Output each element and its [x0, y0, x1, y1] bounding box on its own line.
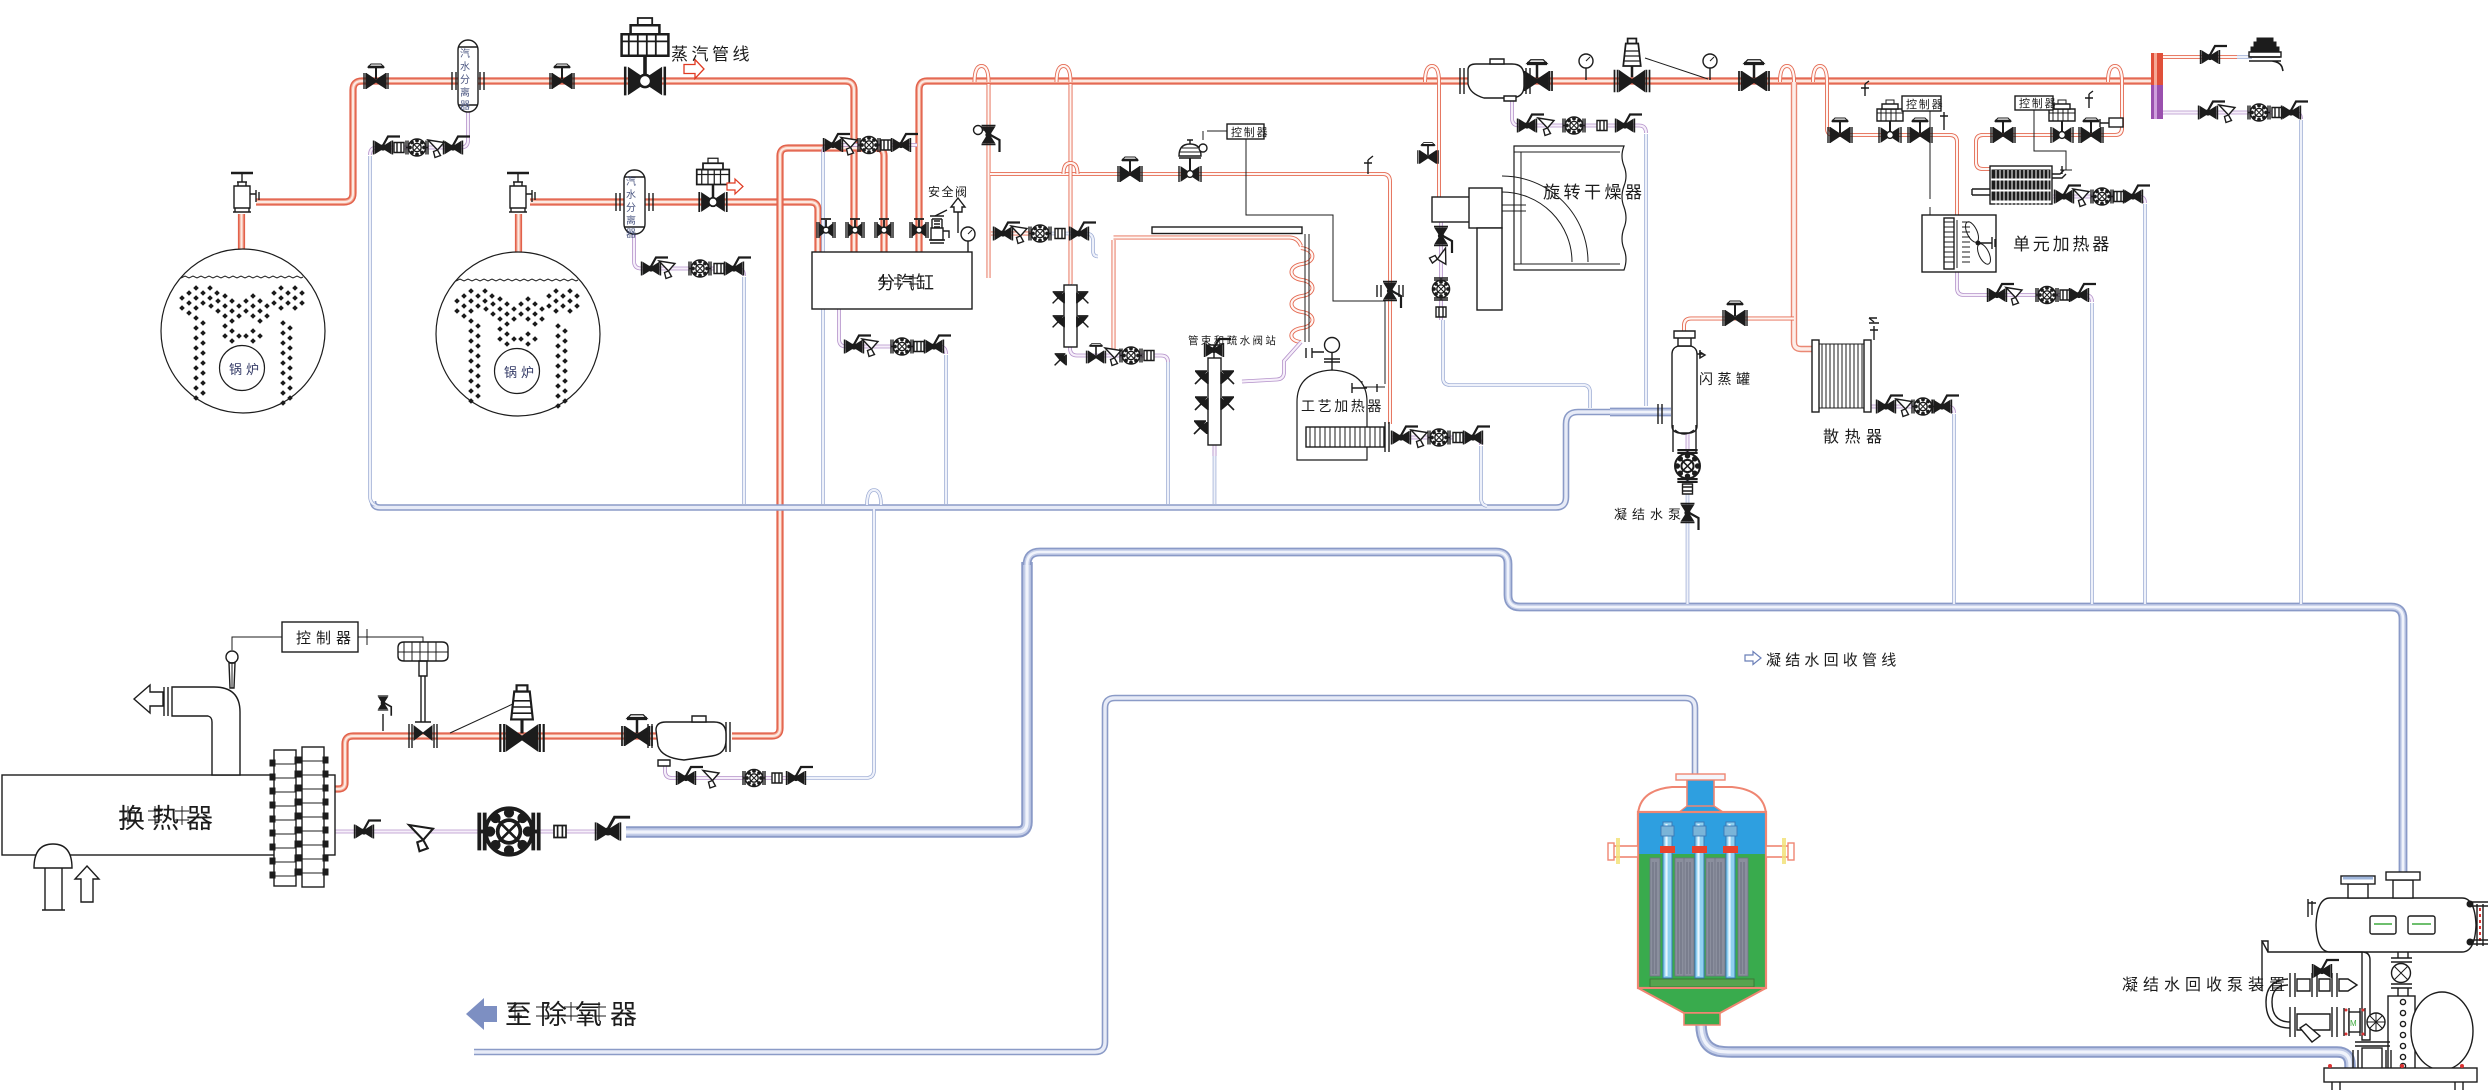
- baseplate: [2324, 1064, 2477, 1090]
- svg-text:单元加热器: 单元加热器: [2013, 235, 2112, 254]
- pump suction cross fitting: [2353, 1042, 2391, 1070]
- receiver vessel: [2316, 898, 2476, 952]
- valve flanged ball on bundle feed x1390: [1377, 282, 1403, 309]
- trap set riser drip y145: strainer: [841, 138, 857, 156]
- wire radiator drain trap set y406: [1871, 407, 1954, 414]
- trap set process heater y437: ball2: [1464, 427, 1491, 445]
- trap set manifold drain y346: ball: [845, 336, 872, 354]
- rotary dryer body: [1432, 146, 1626, 310]
- trap set radiator y406: strainer: [1896, 399, 1912, 417]
- svg-text:控制器: 控制器: [1231, 125, 1269, 139]
- svg-text:换热器: 换热器: [118, 804, 220, 834]
- station1: control valve CV5: [1877, 100, 1903, 143]
- control valve CV2 on boiler2 line: [697, 158, 730, 212]
- wire trap station TM bottom stub: [1213, 445, 1217, 456]
- wire boiler1 outlet to header A and down to manifold riser R2: [256, 81, 854, 252]
- valve riser R4: [910, 219, 928, 238]
- wire deaerator line y1052 rising x1105 east y698 to tank top: [474, 698, 1695, 1052]
- wire trap drop to y507: riser drip set: [821, 152, 825, 504]
- wire trap drop to y507: separator2: [742, 277, 746, 504]
- wire controller K1 signal to unit heater sensor: [1926, 110, 1934, 232]
- tank left nozzle: [1608, 838, 1638, 864]
- air vent device top right: [2249, 38, 2283, 71]
- HX outlet: check: [554, 826, 566, 838]
- wire thin steam line y174 to process heater bundle: [990, 174, 1390, 424]
- dryer inlet arcs: [1502, 176, 1588, 262]
- valve ball on drop x988: [974, 126, 1000, 153]
- separator S2 (boiler2 steam separator): [616, 170, 653, 234]
- flash condensate pump float trap: [1675, 450, 1700, 482]
- HX line: flow meter: [607, 735, 609, 737]
- trap set manifold drain y346: strainer: [862, 339, 878, 357]
- valve ball top right y57: [2201, 46, 2228, 64]
- trap set riser drip y145: check: [881, 140, 891, 150]
- trap set radiator y406: float trap: [1912, 398, 1934, 415]
- wire trap drop to y507: manifold M1 set: [1166, 362, 1170, 504]
- wire controller K2 signal to process heater sensor: [1246, 139, 1385, 393]
- controller box K1: [1902, 96, 1944, 111]
- trap set process heater y437: strainer: [1411, 430, 1427, 448]
- trap set drip y233: float trap: [1029, 225, 1051, 242]
- station1: globe west: [1828, 118, 1852, 143]
- flash pump check valve: [1683, 484, 1693, 494]
- svg-text:散热器: 散热器: [1823, 428, 1888, 446]
- valve boiler2 outlet angle valve: [507, 173, 535, 212]
- HX inlet dome: [34, 844, 72, 910]
- HX line: globe valve: [622, 715, 652, 746]
- trap set far right y112: float trap: [2248, 104, 2270, 121]
- wire trap drop to y507: separator1: [370, 156, 375, 505]
- wire header PRV pilot diagonal: [1645, 58, 1708, 79]
- trap set separator2: strainer: [659, 261, 675, 279]
- condensate recovery tank: [1608, 774, 1794, 1025]
- wire trap drop to y507: trap station TM: [1213, 450, 1217, 504]
- wire far-right purple drain y112: [2157, 113, 2301, 120]
- svg-text:凝结水回收泵装置: 凝结水回收泵装置: [2122, 976, 2290, 994]
- flash tank side tick valve: [1700, 352, 1705, 358]
- trap set drip y233: ball: [994, 223, 1021, 241]
- control valve CV1 on header: [622, 18, 669, 95]
- trap set dryer sep y125: float trap: [1563, 117, 1585, 134]
- trap set separator1: ball: [374, 137, 401, 155]
- HX outlet: ball valve 2: [596, 817, 630, 840]
- svg-text:M: M: [2350, 1019, 2357, 1028]
- svg-text:控制器: 控制器: [2019, 96, 2057, 110]
- valve globe on y174: [1118, 157, 1142, 182]
- HX outlet arrow: [134, 685, 163, 713]
- wire HX condensate outlet purple y831: [327, 830, 602, 834]
- boiler B1: [161, 249, 325, 413]
- station2: flow meter: [2031, 134, 2033, 136]
- trap set unit heater y295: ball2: [2070, 284, 2097, 302]
- safety valve stand pipe with arrow: [951, 198, 965, 233]
- flash tank: [1658, 331, 1703, 452]
- tank dome: [1638, 787, 1766, 814]
- svg-text:锅炉: 锅炉: [504, 365, 538, 380]
- wire drip set y233 blue stub: [1042, 234, 1098, 257]
- pump suction elbow white pipe: [2262, 941, 2370, 1040]
- unit heater: [1922, 215, 1996, 272]
- process heater top transmitter: [1324, 352, 1340, 370]
- valve riser R1: [817, 219, 835, 238]
- trap set manifold drain y346: check: [914, 342, 924, 352]
- process heater temp element: [1352, 383, 1377, 393]
- trap set dryer sep y125: strainer: [1538, 118, 1554, 136]
- trap set separator1: strainer: [428, 140, 444, 158]
- station1: globe east: [1908, 118, 1932, 143]
- wire tank bottom outlet to y1055 main to pump suction: [1701, 1024, 2350, 1070]
- HX flange stack: [270, 747, 328, 887]
- valve globe on header x562: [550, 64, 574, 89]
- trap set process heater y437: float trap: [1428, 429, 1450, 446]
- wire riser drip trap set y145: [823, 145, 917, 153]
- trap set separator1: float trap: [406, 139, 428, 156]
- wire boiler1 steam riser: [238, 214, 245, 252]
- wire flash tank bottom stub to condensate pump: [1686, 432, 1690, 454]
- trap set process heater y437: ball: [1392, 427, 1419, 445]
- HX outlet elbow pipe: [172, 687, 240, 775]
- station2: control valve CV6: [2049, 100, 2075, 143]
- trap set riser drip y145: float trap: [858, 136, 880, 153]
- trap set fin heater y196: check: [2114, 192, 2124, 202]
- wire manifold M1 drain trap set y355: [1070, 284, 1168, 362]
- trap station TM: [1194, 339, 1234, 445]
- wire controller K2 to control valve CV4: [1203, 131, 1227, 140]
- trap set fin heater y196: ball2: [2124, 186, 2151, 204]
- trap set radiator y406: ball2: [1933, 396, 1960, 414]
- trap set separator2: ball2: [725, 258, 752, 276]
- svg-text:工艺加热器: 工艺加热器: [1301, 398, 1384, 414]
- wire HX trap return rising x874 with hump over y507: [801, 509, 874, 778]
- trap set far right y112: ball2: [2282, 102, 2309, 120]
- valve globe on header x1754: [1739, 60, 1769, 91]
- trap set unit heater y295: check: [2060, 290, 2070, 300]
- trap set unit heater y295: float trap: [2036, 286, 2058, 303]
- tank internals blue tubes: [1660, 822, 1738, 978]
- trap set drip y233: check: [1055, 229, 1065, 239]
- label to deaerator with solid arrow: [466, 998, 645, 1030]
- wire trap drop to y607: far right station: [2299, 120, 2303, 604]
- wire control station 2 feed y135 to fin heater: [1976, 82, 2122, 169]
- svg-text:蒸汽管线: 蒸汽管线: [671, 45, 753, 64]
- wire top-right vent stub blue: [2237, 55, 2252, 59]
- controller box K2: [1227, 124, 1269, 139]
- gauge on header x1710: [1703, 54, 1717, 80]
- trap set far right y112: ball: [2199, 102, 2226, 120]
- wire crossover humps on steam header: [975, 66, 2123, 82]
- wire heating coil spiral: [1291, 248, 1312, 342]
- wire rotary dryer feed drop x1439: [1437, 82, 1441, 198]
- bypass lower line with strainer and M valve: [2290, 1007, 2385, 1042]
- receiver top-right flange nozzle: [2386, 872, 2420, 898]
- dryer drain chain: check: [1436, 307, 1446, 317]
- control valve CV4 on y174: [1179, 140, 1207, 182]
- trap set unit heater y295: ball: [1988, 284, 2015, 302]
- far right globe station small actuator: [2100, 118, 2123, 127]
- trap set separator2: float trap: [689, 260, 711, 277]
- flow meter on y174: [1158, 173, 1160, 175]
- boiler1 dot spray: [180, 286, 304, 405]
- wire steam manifold drain trap set y346: [839, 309, 946, 354]
- HX outlet: pumping trap: [479, 808, 538, 854]
- wire flash/radiator riser x1794: [1794, 82, 1814, 349]
- wire drip set y233 pink part: [991, 232, 1042, 236]
- label condensate return main with arrow: [1745, 652, 1900, 670]
- tank body green zone: [1638, 854, 1766, 988]
- safety valve on manifold: [929, 210, 949, 243]
- trap set fin heater y196: strainer: [2073, 189, 2089, 207]
- trap set HX sep y778: float trap: [743, 769, 765, 786]
- wire fin heater drain trap set y196: [2053, 197, 2145, 204]
- station1: vent tick: [1861, 81, 1869, 96]
- wire boiler2 steam riser: [515, 214, 522, 252]
- svg-text:汽水分离器: 汽水分离器: [458, 47, 470, 113]
- heat exchanger body: [2, 642, 448, 910]
- HX line: PRV: [500, 685, 543, 752]
- wire trap drop to y507: steam manifold drain: [944, 355, 948, 504]
- wire controller K3 to control valve CV3: [357, 629, 423, 645]
- svg-text:控制器: 控制器: [296, 630, 356, 647]
- wire coil outlet purple diagonal to trap station: [1242, 342, 1301, 382]
- wire HX steam line west of separator: [331, 736, 660, 789]
- receiver left nozzle: [2308, 899, 2316, 917]
- pressure gauge on manifold: [961, 227, 975, 252]
- wire process heater drain trap set y437: [1392, 438, 1481, 446]
- wire trap drop to y507: process heater drain: [1481, 446, 1487, 506]
- steam arrow at CV1: [684, 60, 704, 79]
- radiator coil: [1812, 323, 1879, 412]
- wire separator1 drain with trap set y147: [370, 112, 468, 155]
- wire trap drop to y607: radiator: [1952, 414, 1956, 604]
- valve tee on dryer drop: [1418, 143, 1438, 164]
- thermometer on y174 line: [1364, 156, 1373, 174]
- separator S1 (boiler1 steam separator): [452, 40, 484, 112]
- trap set dryer sep y125: check: [1597, 121, 1607, 131]
- tank cone: [1638, 988, 1766, 1013]
- wire flash tank outlet thick stub: [1610, 408, 1671, 417]
- bypass upper line: [2290, 960, 2357, 997]
- valve riser R2: [846, 219, 864, 238]
- wire drop x1070 to trap manifold M1: [1069, 84, 1073, 284]
- trap set fin heater y196: float trap: [2091, 188, 2113, 205]
- wire boiler2 line y202 to manifold riser R1: [530, 202, 818, 252]
- wire coil feed line y237 with drop stub: [1114, 238, 1302, 353]
- wire control station 1 feed y135 to unit heater: [1827, 82, 1957, 218]
- process heater fin bundle: [1306, 427, 1384, 447]
- pump casing and motor: [2388, 992, 2473, 1070]
- trap set manifold drain y346: ball2: [925, 336, 952, 354]
- trap set M1 y355: globe: [1086, 343, 1105, 363]
- wire PRV pilot sensing diagonal: [450, 703, 515, 733]
- fin tube heater: [1972, 166, 2066, 208]
- svg-text:凝结水回收管线: 凝结水回收管线: [1766, 652, 1900, 669]
- wire rotary dryer bottom drain chain x1441: [1439, 222, 1443, 320]
- wire flash pump discharge chain: [1686, 478, 1690, 524]
- wire HX separator drain trap set y778: [665, 762, 803, 778]
- svg-text:至除氧器: 至除氧器: [505, 1000, 645, 1030]
- trap set separator1: check: [394, 143, 404, 153]
- trap manifold M1: [1053, 285, 1089, 365]
- trap set riser drip y145: ball2: [892, 134, 919, 152]
- trap set separator1: ball2: [444, 137, 471, 155]
- wire HX condensate out thick y832 rising to y552: [626, 562, 1027, 832]
- PRV on header: [1615, 39, 1650, 93]
- svg-text:管束和疏水阀站: 管束和疏水阀站: [1188, 334, 1278, 347]
- HX outlet: ball valve: [355, 821, 382, 839]
- trap set process heater y437: check: [1453, 433, 1463, 443]
- wire manifold riser R3 up and west to HX feed drop: [732, 148, 884, 736]
- trap set dryer sep y125: ball2: [1616, 115, 1643, 133]
- trap set M1 y355: float trap: [1120, 347, 1142, 364]
- station2: vent tick: [2085, 91, 2093, 108]
- HX line: vent valve: [378, 696, 392, 731]
- valve riser R3: [875, 219, 893, 238]
- trap set HX sep y778: ball: [677, 767, 704, 785]
- valve boiler1 outlet angle valve: [231, 173, 259, 212]
- pump drop pipe with valve: [2391, 952, 2412, 996]
- wire drop x988 with drip leg: [987, 84, 991, 278]
- coil guard tube: [1152, 227, 1309, 342]
- trap set separator2: check: [714, 264, 724, 274]
- svg-text:锅炉: 锅炉: [229, 362, 263, 377]
- tank bottom support bar: [1650, 979, 1754, 987]
- HX outlet: Y strainer: [409, 825, 433, 851]
- condensate recovery pump unit: [2262, 872, 2488, 1090]
- wire trap drop to y607: unit heater: [2090, 303, 2094, 604]
- dryer drain chain: ball: [1434, 227, 1452, 254]
- trap set radiator y406: ball: [1877, 396, 1904, 414]
- wire trap drop to y607: fin heater: [2143, 204, 2147, 604]
- svg-text:控制器: 控制器: [1906, 97, 1944, 111]
- trap set M1 y355: check: [1144, 351, 1154, 361]
- svg-text:安全阀: 安全阀: [928, 184, 969, 199]
- dryer drain chain: strainer: [1428, 248, 1448, 267]
- wire dryer separator drain drop x1646: [1644, 134, 1648, 406]
- gauge on header x1586: [1579, 54, 1593, 80]
- dryer drain chain: float trap: [1432, 278, 1449, 300]
- wire unit heater drain trap set y295: [1957, 272, 2092, 302]
- trap set HX sep y778: ball2: [787, 767, 814, 785]
- trap set far right y112: check: [2272, 108, 2282, 118]
- faux strokes for big labels: [121, 806, 189, 825]
- wire manifold riser R4 up to header B east: [919, 81, 2152, 252]
- flow indicator after separator2: [674, 201, 676, 203]
- trap set separator2: ball: [642, 258, 669, 276]
- HX temperature sensor: [226, 651, 238, 688]
- station2: globe west: [1991, 118, 2015, 143]
- radiator air vent valve: [1869, 318, 1877, 322]
- bypass elbow: [2266, 979, 2290, 1028]
- svg-text:凝结水泵: 凝结水泵: [1614, 507, 1686, 522]
- wire top-right red branch y57: [2163, 55, 2237, 59]
- tank right nozzle: [1766, 838, 1794, 864]
- wire crossover hump on y174 at x1070: [1064, 163, 1078, 174]
- trap set M1 y355: strainer: [1105, 348, 1121, 366]
- station2: globe east: [2079, 118, 2103, 143]
- steam arrow at CV2: [727, 179, 743, 194]
- control valve CV3 large actuator: [398, 642, 448, 748]
- valve gate on flash feed y318: [1723, 301, 1747, 326]
- tank top nozzle: [1687, 778, 1714, 812]
- valve gate on header x376: [364, 64, 388, 89]
- boiler B2: [436, 252, 600, 416]
- trap set HX sep y778: strainer: [703, 771, 719, 789]
- valve globe on header x1537: [1522, 60, 1552, 91]
- controller box K4: [2015, 96, 2057, 110]
- trap set drip y233: ball2: [1070, 223, 1097, 241]
- receiver top-left flange nozzle: [2341, 876, 2375, 898]
- trap set unit heater y295: strainer: [2006, 288, 2022, 306]
- process heater tank: [1297, 338, 1389, 461]
- svg-text:汽水分离器: 汽水分离器: [624, 175, 636, 241]
- wire condensate main y552 jog y607 east to pump unit drop: [1027, 552, 2403, 874]
- wire trap drop to y607: flash pump: [1686, 524, 1690, 604]
- station1: flow meter: [1863, 134, 1865, 136]
- level gauge: [2467, 901, 2488, 946]
- trap set fin heater y196: ball: [2055, 186, 2082, 204]
- svg-text:分汽缸: 分汽缸: [877, 272, 936, 293]
- trap set drip y233: strainer: [1011, 226, 1027, 244]
- wire flash tank feed branch y318: [1684, 319, 1794, 335]
- dryer feed box: [1432, 197, 1470, 222]
- big separator on header B: [1460, 59, 1530, 101]
- station1: sensor tick: [1940, 112, 1948, 130]
- svg-text:闪蒸罐: 闪蒸罐: [1699, 371, 1755, 387]
- terminal purple drop block: [2151, 85, 2163, 119]
- trap set HX sep y778: check: [772, 773, 782, 783]
- flash pump ball valve: [1681, 504, 1699, 531]
- svg-text:旋转干燥器: 旋转干燥器: [1543, 183, 1646, 202]
- wire trap header y507 east end up to flash tank outlet: [373, 412, 1612, 508]
- boiler2 dot spray: [455, 289, 579, 408]
- trap set manifold drain y346: float trap: [891, 338, 913, 355]
- terminal red riser block: [2151, 53, 2163, 85]
- tank body blue zone: [1638, 812, 1766, 854]
- trap set dryer sep y125: ball: [1518, 115, 1545, 133]
- trap set far right y112: strainer: [2219, 105, 2235, 123]
- steam manifold 分汽缸: [812, 252, 972, 309]
- receiver nameplates: [2370, 916, 2396, 934]
- wire separator2 drain with trap set y268: [634, 233, 744, 276]
- wire rotary dryer drain east jog to flash outlet line: [1443, 320, 1590, 408]
- trap set riser drip y145: ball: [824, 134, 851, 152]
- wire controller K4 signal to fin heater: [2034, 108, 2072, 170]
- HX inlet arrow: [75, 866, 99, 902]
- unit heater fan: [1963, 220, 1993, 266]
- wire controller K3 to temperature sensor: [232, 637, 282, 688]
- tank internals grey sleeves: [1650, 858, 1748, 976]
- controller box K3: [282, 622, 358, 652]
- wire dryer separator drain trap set y125: [1512, 98, 1646, 133]
- HX steam separator (horizontal): [648, 716, 730, 766]
